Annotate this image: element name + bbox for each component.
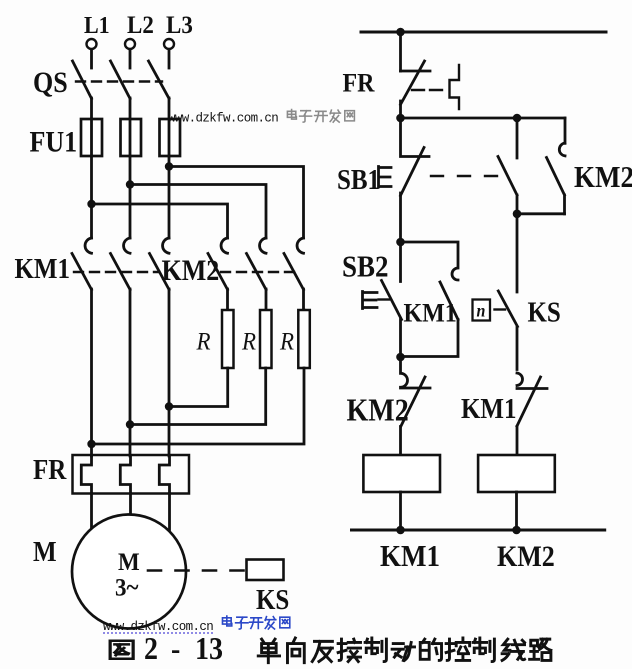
- FR linkage dashed: [412, 89, 448, 91]
- wire node 1 horizontal: [401, 117, 566, 120]
- junction dot phase2/branch: [126, 180, 134, 188]
- QS linkage dashed line: [76, 80, 162, 82]
- wire QS pole2 to fuse: [129, 98, 132, 119]
- thermal contact FR (NC): [401, 61, 431, 105]
- svg-text:FR: FR: [33, 454, 67, 486]
- wire L1 stub: [90, 50, 93, 69]
- pushbutton SB2 (NO start): [382, 242, 402, 358]
- fuse FU1 phase3: [160, 119, 181, 156]
- coil KM1: [363, 455, 440, 492]
- contactor KM2 main pole5: [247, 238, 267, 290]
- wire KM1 coil to bottom bus: [399, 492, 402, 530]
- wire KM2 coil to bottom bus: [515, 492, 518, 530]
- resistor R1: [222, 310, 234, 368]
- n box: [473, 300, 491, 321]
- wire phase3 KM1 to FR: [168, 289, 171, 456]
- pushbutton SB1 (NC stop): [401, 118, 430, 196]
- svg-text:n: n: [476, 301, 485, 321]
- contact KM2 auxiliary NO (right leg): [547, 118, 566, 214]
- motor M circle: [72, 515, 186, 629]
- coil KM2: [478, 455, 555, 492]
- svg-text:-: -: [171, 633, 180, 667]
- wire FR to motor phase3: [168, 494, 171, 530]
- svg-text:KM2: KM2: [497, 540, 555, 573]
- svg-text:R: R: [279, 327, 294, 355]
- wire KM2 pole6 to R3: [302, 289, 305, 310]
- wire node 3 to KS: [516, 214, 519, 292]
- contactor KM2 main pole4: [208, 238, 228, 290]
- junction dot node 1 left: [396, 114, 405, 123]
- FR heater element phase2: [120, 456, 130, 494]
- contact KM1 interlock NC: [517, 373, 547, 426]
- FR actuator element: [450, 65, 460, 109]
- svg-text:M: M: [33, 536, 57, 568]
- contact KM1 auxiliary NO (self-lock): [401, 242, 459, 357]
- caption 图 2-13: [110, 641, 133, 659]
- contactor KM1 main pole1: [72, 238, 92, 290]
- wire phase1 KM1 to FR: [90, 289, 93, 456]
- svg-text:FU1: FU1: [30, 125, 78, 158]
- node L2 terminal: [125, 39, 135, 49]
- svg-text:R: R: [196, 327, 211, 355]
- svg-text:KM2: KM2: [162, 254, 220, 287]
- FR heater element phase1: [81, 456, 91, 494]
- svg-text:3~: 3~: [115, 573, 139, 601]
- SB1 button cap E: [379, 167, 392, 188]
- wire phase2 down to KM1: [129, 156, 132, 238]
- SB2 button cap E: [363, 292, 378, 309]
- wire SB1 to node 2: [399, 193, 402, 242]
- thermal relay FR heater box: [73, 455, 190, 494]
- n box link dash: [495, 308, 506, 310]
- dashed link motor to KS: [148, 569, 246, 572]
- wire L3 stub: [168, 50, 171, 69]
- watermark top CJK 电子开发网: [287, 110, 296, 120]
- junction dot node 4: [396, 353, 405, 362]
- watermark top: [168, 110, 354, 126]
- fuse FU1 phase1: [81, 119, 102, 156]
- wire phase3 down to KM1: [168, 156, 171, 238]
- svg-text:www.dzkfw.com.cn: www.dzkfw.com.cn: [103, 620, 213, 634]
- svg-text:2: 2: [144, 633, 158, 667]
- svg-text:R: R: [241, 327, 256, 355]
- wire parallel legs bottom: [517, 212, 565, 215]
- caption 单向反接制动的控制线路: [258, 638, 551, 663]
- wire bottom bus: [352, 529, 605, 532]
- svg-text:KM2: KM2: [574, 161, 632, 195]
- svg-text:KS: KS: [256, 584, 289, 616]
- wire R1 bottom to phase3: [169, 368, 228, 407]
- wire FR contact to node 1: [399, 101, 402, 118]
- watermark bottom CJK 电子开发网: [222, 616, 231, 626]
- junction dot node 1 right: [513, 114, 522, 123]
- wire top bus: [361, 31, 606, 34]
- resistor R3: [298, 310, 310, 368]
- wire bus to FR contact: [399, 32, 402, 71]
- wire KM2 pole4 to R1: [226, 289, 229, 310]
- switch QS pole 1 blade: [73, 61, 92, 99]
- svg-text:13: 13: [195, 633, 223, 667]
- junction dot phase3/R1: [165, 402, 173, 410]
- resistor R2: [260, 310, 272, 368]
- svg-text:SB2: SB2: [342, 250, 389, 284]
- svg-text:FR: FR: [343, 67, 376, 98]
- SB1 linkage dashed: [431, 175, 497, 177]
- contact SB1 NO (parallel, left leg): [498, 118, 517, 214]
- contactor KM1 main pole3: [150, 238, 170, 290]
- switch QS pole 2 blade: [111, 61, 131, 99]
- switch QS pole 3 blade: [149, 61, 170, 99]
- wire R2 bottom to phase2: [130, 368, 266, 425]
- junction dot phase2/R2: [126, 420, 134, 428]
- svg-text:KM2: KM2: [347, 394, 409, 428]
- svg-text:www.dzkfw.com.cn: www.dzkfw.com.cn: [168, 112, 278, 126]
- wire branch phase1 to KM2 pole4: [92, 204, 228, 238]
- svg-text:M: M: [118, 548, 140, 576]
- wire FR to motor phase2: [129, 494, 132, 516]
- svg-text:QS: QS: [33, 66, 68, 99]
- SB2 cap link dash: [379, 298, 390, 300]
- wire branch phase3 to KM2 pole6: [169, 167, 304, 239]
- svg-text:KM1: KM1: [404, 297, 457, 328]
- KM1-KM2 linkage dashed line: [74, 271, 159, 273]
- contact KM2 interlock NC: [401, 357, 431, 426]
- fuse FU1 phase2: [121, 119, 142, 156]
- junction dot top bus: [396, 28, 405, 37]
- wire KM2-NC to KM1 coil: [399, 427, 402, 456]
- junction dot phase1/branch: [87, 200, 95, 208]
- wire FR to motor phase1: [90, 494, 93, 530]
- junction dot node 3: [513, 210, 522, 219]
- wire phase1 down to KM1: [90, 156, 93, 238]
- wire QS pole1 to fuse: [90, 98, 93, 119]
- speed relay KS box: [247, 560, 284, 581]
- wire phase2 KM1 to FR: [129, 289, 132, 456]
- svg-text:KS: KS: [528, 296, 561, 328]
- wire QS pole3 to fuse: [168, 98, 171, 119]
- junction dot node 2: [396, 238, 405, 247]
- node L1 terminal: [87, 39, 97, 49]
- svg-text:L2: L2: [127, 11, 154, 39]
- wire R3 bottom to phase1: [92, 368, 305, 444]
- wire KM1-NC to KM2 coil: [516, 427, 519, 456]
- svg-text:KM1: KM1: [14, 253, 70, 285]
- wire branch phase2 to KM2 pole5: [130, 185, 266, 239]
- FR heater element phase3: [159, 456, 169, 494]
- node L3 terminal: [164, 39, 174, 49]
- contactor KM2 main pole6: [284, 238, 304, 290]
- junction dot phase1/R3: [87, 440, 95, 448]
- watermark bottom: [103, 616, 290, 634]
- wire L2 stub: [129, 50, 132, 69]
- junction dot phase3/branch: [165, 162, 173, 170]
- svg-text:KM1: KM1: [461, 393, 517, 425]
- junction dot bus KM1: [396, 526, 405, 535]
- svg-text:L1: L1: [84, 12, 110, 39]
- svg-text:KM1: KM1: [380, 540, 440, 574]
- junction dot bus KM2: [512, 526, 521, 535]
- wire KM2 pole5 to R2: [265, 289, 268, 310]
- contactor KM1 main pole2: [111, 238, 131, 290]
- svg-text:SB1: SB1: [337, 164, 380, 196]
- contact KS speed relay NO: [498, 291, 517, 370]
- svg-text:L3: L3: [166, 11, 193, 39]
